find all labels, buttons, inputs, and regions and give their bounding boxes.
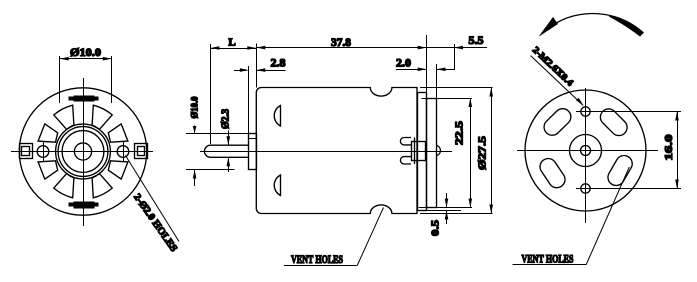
- front view outer circle (motor housing): [19, 88, 146, 215]
- svg-text:2.0: 2.0: [396, 58, 411, 70]
- front bearing boss inner circle: [62, 131, 104, 173]
- svg-text:L: L: [228, 37, 235, 49]
- extension line boss front / 2.8: [248, 66, 250, 134]
- arrowheads L: [210, 46, 219, 50]
- rear shaft hole: [581, 146, 591, 156]
- rear view horizontal center line: [517, 150, 658, 152]
- VENT HOLES underline (side view): [284, 265, 357, 267]
- svg-text:VENT HOLES: VENT HOLES: [522, 254, 574, 266]
- arrowheads ø27.5: [489, 88, 493, 97]
- arrowheads ø10.0 front: [60, 57, 69, 61]
- dimension 16.0 dim line: [677, 112, 679, 189]
- fan blade vent top-left: [54, 105, 74, 129]
- rear view vertical center line: [585, 88, 587, 223]
- extension line rear cap lines up: [426, 35, 428, 92]
- dimension 22.5: dim line: [470, 98, 472, 208]
- front view horizontal center line: [11, 151, 153, 153]
- svg-text:0.5: 0.5: [430, 219, 442, 236]
- svg-text:Ø10.0: Ø10.0: [191, 96, 201, 118]
- dimension 22.5: ext lines: [422, 98, 473, 100]
- terminal lower (side view): [400, 157, 411, 164]
- arrowheads ø10.0 side: [193, 126, 197, 134]
- rear center boss circle: [570, 135, 602, 167]
- vent hole D-shape lower (side view): [274, 175, 280, 196]
- svg-text:VENT HOLES: VENT HOLES: [291, 254, 343, 266]
- dimension line 5.5: [427, 47, 487, 49]
- quad vent left-upper: [38, 124, 58, 142]
- extension line front face: [256, 44, 258, 88]
- terminal base inner line: [414, 138, 416, 165]
- mounting hole right (2-ø2.0): [117, 146, 129, 158]
- fan blade vent top-right: [92, 105, 112, 129]
- dimension ø10.0 side: ext lines: [186, 133, 249, 135]
- vent slot bottom-right: [608, 156, 632, 186]
- arrowheads 37.8: [256, 46, 265, 50]
- top terminal bar (filled): [69, 97, 99, 101]
- front bearing boss outer circle: [58, 127, 108, 177]
- rotation direction arc: [547, 14, 644, 34]
- dimension ø27.5: dim line: [491, 88, 493, 214]
- shaft (ø2.3) with rounded tip: [204, 145, 248, 157]
- arrowheads ø2.3: [227, 136, 231, 145]
- boss washer line: [249, 138, 257, 140]
- terminal upper (side view): [400, 138, 411, 145]
- svg-text:2.8: 2.8: [271, 58, 286, 70]
- left tab outer: [20, 144, 33, 159]
- vent hole D-shape upper (side view): [274, 106, 280, 127]
- leader 2-M2.6X0.4: [531, 56, 583, 106]
- quad vent left-lower: [38, 161, 58, 179]
- arrowheads 0.5: [445, 199, 449, 208]
- front view vertical center line: [83, 78, 85, 226]
- dimension ø10.0 side: dim line segments: [194, 126, 196, 134]
- side view center line (motor axis): [200, 151, 452, 153]
- arrowheads 2.0: [418, 68, 427, 72]
- terminal base block: [412, 142, 426, 161]
- rotation tapered tail (right end): [609, 15, 643, 36]
- rotation arrowhead (left end): [539, 17, 559, 37]
- mounting hole left (2-ø2.0): [37, 146, 49, 158]
- arrowheads 16.0: [675, 112, 679, 121]
- svg-text:16.0: 16.0: [663, 134, 675, 161]
- arrowhead leader 2-M2.6X0.4: [576, 98, 583, 106]
- left hole center tick: [43, 141, 45, 162]
- svg-text:22.5: 22.5: [454, 120, 466, 145]
- quad vent right-upper: [108, 124, 128, 142]
- arrowhead 5.5 (outside left-pointing at x=454): [454, 46, 463, 50]
- left tab inner: [22, 147, 30, 156]
- svg-text:Ø10.0: Ø10.0: [70, 47, 101, 59]
- vent slot top-right: [600, 109, 627, 136]
- bottom terminal bar (filled): [69, 203, 99, 207]
- dimension 16.0 ext top: [576, 111, 681, 113]
- vent ring circle: [56, 124, 111, 179]
- VENT HOLES leader (rear): [586, 167, 629, 265]
- dimension line 2.8: [234, 70, 247, 72]
- dimension 0.5: dim line segments: [446, 193, 448, 208]
- svg-text:5.5: 5.5: [469, 35, 484, 47]
- dimension 16.0 ext bottom: [576, 188, 681, 190]
- dimension ø2.3: dim line segments: [228, 131, 230, 146]
- rear cap boss rectangle: [427, 99, 437, 208]
- arrowheads 2.8: [240, 68, 249, 72]
- vent slot top-left: [544, 109, 571, 136]
- svg-text:37.8: 37.8: [331, 37, 351, 49]
- rear screw hole top (M2.6): [581, 107, 590, 116]
- rear screw hole bottom (M2.6): [581, 184, 590, 193]
- extension line shaft tip (L): [210, 44, 212, 144]
- dimension line 2.0: [396, 69, 427, 71]
- dimension ø10.0 front: extension lines: [60, 56, 112, 103]
- rear view outer circle: [525, 90, 646, 211]
- svg-text:Ø27.5: Ø27.5: [477, 135, 489, 170]
- right tab inner: [138, 147, 145, 156]
- leader line 2-ø2.0 HOLES: [126, 156, 180, 242]
- rear cap outer rectangle: [418, 93, 427, 211]
- quad vent right-lower: [108, 161, 128, 179]
- arrowheads 22.5: [469, 98, 473, 107]
- dimension line 37.8: [256, 47, 426, 49]
- fan blade vent bottom-right: [92, 174, 112, 198]
- dimension line L: [210, 48, 256, 50]
- front shaft hole circle: [74, 143, 91, 160]
- VENT HOLES underline (rear): [513, 264, 587, 266]
- extension line 5.5 right: [454, 44, 456, 70]
- fan blade vent bottom-left: [54, 174, 74, 198]
- dimension ø10.0 front: dimension line: [60, 58, 112, 60]
- vent slot bottom-left: [540, 159, 565, 188]
- rear bearing bump: [437, 145, 441, 155]
- right tab outer: [135, 144, 148, 159]
- VENT HOLES leader (side view): [357, 208, 383, 266]
- svg-text:Ø2.3: Ø2.3: [220, 109, 231, 129]
- dimension ø27.5: ext lines: [420, 87, 493, 89]
- dimension 0.5: ext line: [427, 210, 461, 212]
- right hole center tick: [123, 141, 125, 162]
- motor body outline with rounded left corners and edge notches: [256, 88, 417, 214]
- front boss (ø10.0) rectangle: [249, 134, 257, 170]
